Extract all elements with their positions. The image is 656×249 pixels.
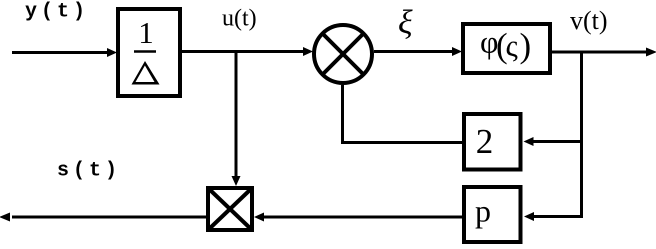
- wire v(t) output: [552, 48, 656, 57]
- arrowhead into block p: [524, 212, 534, 221]
- svg-text:s(t): s(t): [57, 160, 121, 183]
- block gain p: [464, 187, 521, 242]
- svg-text:ς: ς: [506, 28, 518, 63]
- svg-text:v(t): v(t): [570, 6, 608, 35]
- svg-text:2: 2: [476, 122, 494, 161]
- svg-text:): ): [520, 26, 532, 65]
- svg-text:ξ: ξ: [398, 5, 413, 42]
- multiplier M1 (circle with X): [314, 25, 372, 83]
- wire branch into block 2: [524, 137, 582, 146]
- svg-text:u(t): u(t): [222, 6, 257, 32]
- wire u(t): [182, 47, 313, 56]
- multiplier M2 (square with X): [208, 188, 252, 230]
- block U2 phi(sigma): [463, 24, 550, 74]
- svg-text:p: p: [475, 193, 491, 229]
- wire s(t) output: [0, 213, 206, 222]
- wire from block p to multiplier M2: [254, 213, 462, 222]
- svg-text:1: 1: [138, 15, 154, 50]
- block gain 2: [464, 114, 521, 170]
- wire feedback from v(t) down and left to block p: [532, 52, 582, 217]
- wire branch u(t) down to multiplier M2: [232, 52, 241, 186]
- svg-text:y(t): y(t): [25, 1, 89, 24]
- wire input y(t): [12, 48, 117, 57]
- wire from block 2 to multiplier M1: [343, 85, 463, 143]
- block U1 1/Delta: [118, 9, 180, 96]
- wire xi: [374, 47, 462, 56]
